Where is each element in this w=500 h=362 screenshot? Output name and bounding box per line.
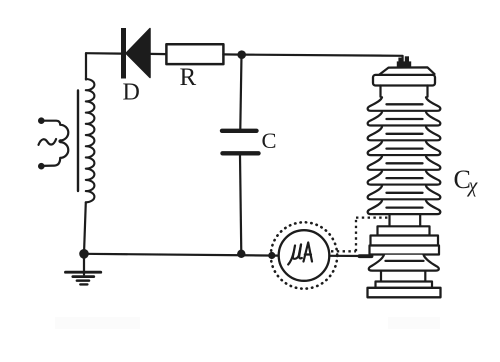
wire transformer secondary top riser bbox=[85, 53, 87, 79]
bushing terminal stem bbox=[398, 58, 402, 63]
resistor R body bbox=[166, 44, 223, 64]
transformer primary terminal bottom bbox=[38, 163, 45, 170]
transformer primary winding bbox=[41, 121, 68, 166]
bushing flange lower band bbox=[370, 246, 440, 255]
scan smudge right bbox=[388, 317, 440, 329]
bushing shed 2 bbox=[368, 112, 441, 126]
transformer secondary winding bbox=[86, 79, 95, 202]
junction dot capacitor branch bbox=[237, 250, 245, 258]
ground symbol bbox=[66, 254, 101, 285]
flange tap connector bbox=[360, 254, 372, 258]
bushing neck band bbox=[381, 86, 428, 97]
wire node A to bushing terminal bbox=[242, 55, 403, 62]
bushing shed 5 bbox=[368, 156, 441, 170]
svg-text:C: C bbox=[262, 128, 277, 153]
microammeter uA body circle bbox=[279, 230, 330, 281]
bushing shed 6 bbox=[368, 171, 441, 185]
bushing lower neck bbox=[381, 271, 425, 282]
wire capacitor to bottom rail bbox=[240, 156, 241, 254]
bushing dome cap bbox=[380, 67, 435, 74]
bushing shed 3 bbox=[368, 127, 441, 141]
bushing base step bbox=[376, 282, 433, 288]
bushing lower shed inner line bbox=[386, 260, 424, 262]
ac source tilde bbox=[39, 139, 57, 145]
capacitor C bottom plate bbox=[223, 151, 259, 155]
wire node A down to capacitor bbox=[240, 55, 241, 129]
diode D cathode bar bbox=[121, 28, 126, 79]
guard dotted wire vertical bbox=[355, 218, 357, 252]
capacitor C top plate bbox=[222, 129, 257, 133]
transformer primary terminal top bbox=[38, 117, 45, 124]
microammeter uA handwritten label bbox=[288, 243, 312, 265]
bushing lower shed bbox=[369, 255, 439, 271]
bushing base plate bbox=[368, 288, 441, 298]
scan smudge left bbox=[55, 317, 140, 329]
bushing shed 8 bbox=[368, 201, 441, 215]
node A junction dot bbox=[237, 50, 246, 59]
bushing upper neck bbox=[390, 214, 421, 226]
bushing cap band bbox=[373, 75, 435, 86]
guard dotted wire horizontal lower bbox=[331, 250, 356, 252]
svg-text:D: D bbox=[123, 80, 140, 106]
wire secondary bottom to ground node bbox=[84, 202, 86, 254]
svg-text:χ: χ bbox=[467, 175, 479, 197]
ground node junction dot bbox=[79, 249, 89, 259]
bushing shed 4 bbox=[368, 142, 441, 156]
bottom rail wire bbox=[84, 254, 280, 256]
bushing shed 7 bbox=[368, 186, 441, 200]
bushing terminal bolt head bbox=[397, 61, 411, 66]
wire resistor to node A bbox=[223, 53, 241, 55]
transformer core bbox=[77, 91, 79, 192]
guard dotted wire horizontal upper bbox=[356, 216, 388, 218]
bushing shed 1 bbox=[368, 97, 441, 111]
meter terminal dot bbox=[268, 252, 275, 259]
bushing step band bbox=[378, 226, 430, 235]
svg-text:R: R bbox=[180, 64, 197, 91]
wire diode to resistor bbox=[150, 53, 166, 55]
diode D triangle bbox=[126, 29, 150, 78]
microammeter shield dotted circle bbox=[271, 222, 337, 288]
wire meter to bushing flange bbox=[329, 255, 366, 257]
wire top horizontal from transformer to diode bbox=[86, 52, 122, 55]
bushing flange upper band bbox=[371, 236, 439, 246]
